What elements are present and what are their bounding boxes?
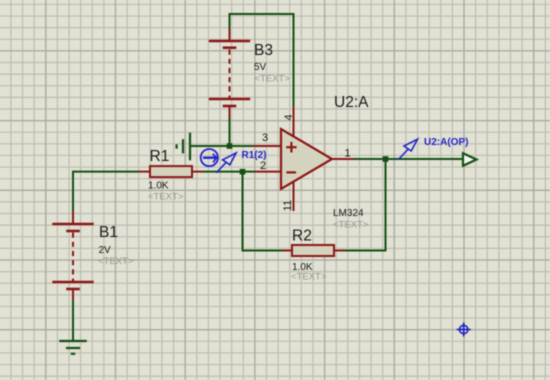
svg-text:<TEXT>: <TEXT> [255, 74, 291, 85]
wire B3 minus to non-inverting input net [229, 119, 231, 147]
op-amp pin 2 stub [255, 171, 280, 173]
current probe [201, 149, 218, 166]
svg-text:4: 4 [283, 114, 295, 120]
op-amp minus marking [286, 171, 296, 173]
svg-text:5V: 5V [254, 62, 267, 73]
wire B1 minus to ground [72, 300, 74, 341]
output terminal U2:A(OP) [463, 153, 477, 166]
svg-text:U2:A(OP): U2:A(OP) [424, 137, 468, 148]
svg-text:B1: B1 [99, 224, 118, 241]
svg-text:R2: R2 [292, 228, 312, 245]
resistor R1 [139, 166, 203, 177]
voltage probe U2:A(OP) [398, 139, 417, 159]
origin marker [457, 323, 471, 337]
op-amp plus marking [286, 142, 296, 153]
resistor R2 [282, 245, 344, 256]
op-amp pin 11 stub [293, 182, 295, 212]
op-amp pin 1 stub [332, 158, 354, 160]
ground (bottom) [59, 341, 87, 354]
wire R2 to output node [344, 159, 386, 251]
wire B1 plus to R1 [73, 172, 139, 211]
svg-text:1.0K: 1.0K [148, 180, 169, 191]
op-amp U2:A body [281, 129, 332, 189]
op-amp pin 3 stub [254, 145, 281, 147]
junction node at B3/ground/pin3 [227, 143, 233, 149]
wire inverting input to R2 [243, 172, 283, 251]
svg-text:R1: R1 [150, 148, 170, 165]
wire op-amp output to terminal [354, 158, 463, 160]
svg-text:R1(2): R1(2) [242, 150, 267, 161]
battery B3 [209, 29, 250, 119]
svg-text:U2:A: U2:A [334, 94, 369, 111]
svg-text:<TEXT>: <TEXT> [148, 192, 184, 203]
svg-text:1: 1 [345, 148, 351, 160]
wire ground to op-amp pin 3 [190, 145, 254, 147]
wire top rail from B3 plus to op-amp pin 4 [230, 14, 294, 106]
svg-text:<TEXT>: <TEXT> [291, 271, 327, 282]
svg-text:2: 2 [260, 160, 266, 172]
svg-text:<TEXT>: <TEXT> [333, 219, 369, 230]
svg-text:3: 3 [262, 132, 268, 144]
wire R1 to op-amp pin 2 [203, 171, 255, 173]
svg-text:B3: B3 [254, 42, 273, 59]
svg-text:LM324: LM324 [333, 208, 364, 219]
voltage probe R1(2) [216, 153, 236, 173]
svg-text:11: 11 [282, 200, 294, 211]
op-amp pin 4 stub [293, 106, 295, 136]
svg-text:2V: 2V [99, 245, 112, 256]
junction node at inverting input [240, 169, 246, 175]
battery B1 [52, 211, 93, 300]
svg-text:<TEXT>: <TEXT> [98, 256, 134, 267]
junction node at output [383, 156, 389, 162]
ground (left, rotated) [177, 133, 190, 161]
